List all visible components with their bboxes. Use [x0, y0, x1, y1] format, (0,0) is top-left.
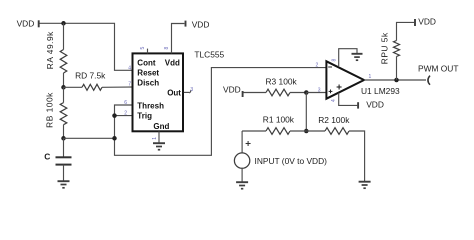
node VDD-RA junction: [61, 21, 66, 26]
svg-text:Trig: Trig: [137, 112, 152, 121]
svg-text:Disch: Disch: [137, 79, 159, 88]
svg-text:VDD: VDD: [192, 20, 210, 30]
node C junction: [112, 136, 117, 141]
pin 1 Gnd stub: [158, 131, 160, 143]
pin 8 stub to ground: [332, 49, 357, 66]
svg-text:RPU 5k: RPU 5k: [380, 32, 390, 64]
svg-text:8: 8: [164, 47, 170, 50]
svg-text:Gnd: Gnd: [153, 122, 169, 131]
ground under 555: [153, 143, 165, 150]
VDD port top right: [415, 16, 436, 26]
wire Trig stub: [115, 115, 133, 117]
svg-text:Out: Out: [167, 89, 181, 98]
pin 3 Out stub: [184, 87, 194, 93]
svg-text:4: 4: [128, 65, 131, 71]
svg-text:C: C: [44, 152, 50, 162]
svg-text:1: 1: [152, 137, 158, 140]
wire Thresh/Trig net: [115, 68, 327, 156]
svg-text:Reset: Reset: [137, 69, 159, 78]
svg-text:VDD: VDD: [223, 84, 241, 94]
svg-text:RA 49.9k: RA 49.9k: [45, 31, 55, 69]
svg-text:R3 100k: R3 100k: [266, 77, 298, 87]
node RA-RB-RD junction: [61, 85, 66, 90]
node R1-R2 junction: [304, 129, 309, 134]
svg-text:8: 8: [332, 59, 338, 62]
op-amp U1 LM293: [326, 61, 400, 98]
svg-text:R2 100k: R2 100k: [318, 115, 350, 125]
ground under INPUT: [236, 182, 248, 189]
svg-text:4: 4: [331, 99, 337, 102]
svg-text:RB 100k: RB 100k: [45, 92, 55, 128]
node RPU junction: [394, 78, 399, 83]
node comparator plus input: [304, 90, 309, 95]
svg-text:3: 3: [318, 87, 321, 93]
pin 8 Vdd stub wire: [172, 24, 185, 54]
svg-text:2: 2: [124, 111, 127, 117]
pin 5 Cont stub: [147, 49, 149, 54]
svg-text:3: 3: [190, 87, 193, 93]
svg-text:Cont: Cont: [137, 59, 156, 68]
svg-text:6: 6: [124, 100, 127, 106]
IC U2 TLC555 body: [133, 53, 184, 131]
resistor RPU 5k: [380, 22, 415, 80]
svg-text:VDD: VDD: [17, 19, 35, 29]
svg-text:TLC555: TLC555: [194, 49, 224, 59]
resistor R3 100k: [243, 77, 306, 96]
svg-text:7: 7: [128, 82, 131, 88]
wire divider column: [305, 93, 307, 132]
ground above comparator: [352, 54, 363, 60]
svg-text:RD 7.5k: RD 7.5k: [75, 71, 106, 81]
svg-text:INPUT (0V to VDD): INPUT (0V to VDD): [255, 156, 328, 166]
wire RB node to Thresh column: [64, 137, 115, 139]
svg-text:R1 100k: R1 100k: [263, 114, 295, 124]
port PWM OUT: [418, 63, 458, 84]
resistor RB 100k: [45, 87, 67, 138]
resistor R1 100k: [242, 114, 306, 134]
pin 4 stub to VDD: [331, 93, 358, 106]
resistor RA 49.9k: [45, 23, 67, 87]
wire VDD rail to Reset: [40, 23, 133, 70]
svg-text:U1 LM293: U1 LM293: [361, 86, 400, 96]
VDD port top-left: [17, 19, 39, 29]
node RB-C junction: [61, 136, 66, 141]
svg-text:5: 5: [140, 47, 146, 50]
wire comparator output: [364, 79, 426, 81]
VDD port for comparator: [358, 99, 384, 109]
svg-text:Thresh: Thresh: [137, 102, 164, 111]
ground under R2: [359, 182, 371, 189]
svg-text:VDD: VDD: [418, 16, 436, 26]
svg-text:VDD: VDD: [366, 99, 384, 109]
capacitor C: [44, 138, 71, 181]
svg-text:2: 2: [316, 62, 319, 68]
svg-text:PWM OUT: PWM OUT: [418, 63, 458, 73]
resistor RD 7.5k: [64, 71, 133, 91]
svg-text:Vdd: Vdd: [165, 59, 180, 68]
resistor R2 100k: [306, 115, 364, 181]
ground under C: [58, 181, 70, 188]
svg-text:1: 1: [369, 74, 372, 80]
VDD port for 555: [186, 20, 210, 30]
node Trig junction: [112, 113, 117, 118]
wire node to plus input: [306, 92, 326, 94]
VDD port for R3: [223, 84, 243, 97]
source INPUT: [234, 131, 327, 182]
